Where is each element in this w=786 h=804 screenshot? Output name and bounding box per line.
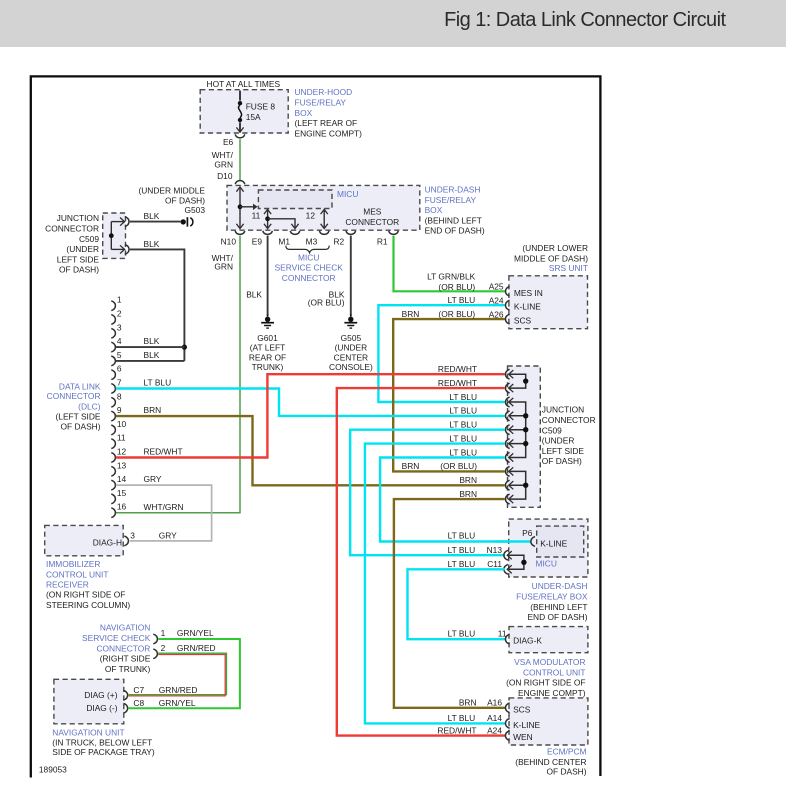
svg-text:OF DASH): OF DASH) — [546, 767, 586, 777]
svg-text:(OR BLU): (OR BLU) — [440, 461, 477, 471]
nav connector pin 1 — [153, 634, 157, 644]
svg-text:LT BLU: LT BLU — [449, 420, 477, 430]
wire RED/WHT C509 pin2 to ECM A24 WEN — [337, 388, 505, 735]
svg-text:FUSE/RELAY: FUSE/RELAY — [425, 195, 477, 205]
svg-text:A24: A24 — [489, 296, 504, 306]
internal arrow M3 to MICU — [323, 210, 325, 227]
svg-text:WHT/GRN: WHT/GRN — [144, 502, 184, 512]
svg-text:5: 5 — [117, 350, 122, 360]
svg-text:(OR BLU): (OR BLU) — [308, 297, 345, 307]
pin M3 — [319, 231, 329, 235]
DLC pin 14 — [111, 480, 115, 490]
svg-text:M1: M1 — [278, 236, 290, 246]
svg-text:6: 6 — [117, 364, 122, 374]
svg-text:DIAG (-): DIAG (-) — [86, 703, 117, 713]
svg-text:12: 12 — [117, 447, 127, 457]
svg-text:(UNDER: (UNDER — [66, 244, 99, 254]
svg-text:C509: C509 — [542, 425, 562, 435]
MICU inner box — [258, 190, 332, 209]
pin C8 — [124, 703, 128, 713]
svg-text:A16: A16 — [487, 698, 502, 708]
svg-text:N10: N10 — [221, 236, 237, 246]
wire LT BLU SRS A24 to C509 pin3 — [378, 305, 505, 402]
svg-text:BOX: BOX — [295, 108, 313, 118]
svg-text:11: 11 — [117, 433, 126, 443]
svg-text:BRN: BRN — [144, 405, 162, 415]
wire LT BLU DLC pin7 to C509 pin4 — [116, 389, 505, 416]
svg-text:Fig 1: Data Link Connector Cir: Fig 1: Data Link Connector Circuit — [444, 9, 726, 31]
wire LT BLU C509 pin5 to MICU N13 — [350, 430, 505, 556]
wire BLK C509 pin1 to G503 — [130, 221, 181, 223]
svg-text:OF DASH): OF DASH) — [542, 456, 582, 466]
svg-text:MES: MES — [363, 207, 382, 217]
C509 left internal bus — [110, 222, 112, 250]
C509 right pin 2 — [505, 383, 509, 393]
DLC pin 7 — [111, 384, 115, 394]
svg-text:(BEHIND LEFT: (BEHIND LEFT — [530, 602, 587, 612]
MICU internal bus N13-C11 — [507, 555, 524, 569]
svg-text:NAVIGATION: NAVIGATION — [100, 623, 150, 633]
svg-text:N13: N13 — [487, 545, 503, 555]
svg-text:REAR OF: REAR OF — [249, 352, 286, 362]
under-hood fuse/relay box — [200, 90, 288, 133]
svg-text:GRN/YEL: GRN/YEL — [177, 628, 214, 638]
svg-text:OF TRUNK): OF TRUNK) — [105, 664, 151, 674]
svg-text:K-LINE: K-LINE — [540, 538, 567, 548]
svg-text:P6: P6 — [522, 528, 533, 538]
junction connector C509 left box — [103, 213, 126, 258]
svg-text:C8: C8 — [133, 698, 144, 708]
svg-text:CONNECTOR: CONNECTOR — [282, 273, 336, 283]
svg-text:1: 1 — [117, 295, 122, 305]
wire GRN/YEL nav pin1 to C8 — [129, 639, 240, 708]
wire BLK DLC pin4 to junction — [116, 346, 185, 348]
svg-text:K-LINE: K-LINE — [513, 720, 540, 730]
VSA modulator DIAG-K box — [509, 627, 588, 653]
DIAG-H pin 3 — [124, 536, 128, 546]
wire GRN R1 to SRS A25 — [394, 236, 505, 292]
pin M1 — [290, 231, 300, 235]
svg-text:JUNCTION: JUNCTION — [57, 213, 99, 223]
internal arrow E9 to MICU with branch to M1 — [267, 210, 269, 227]
C509 right pin 7 — [505, 453, 509, 463]
svg-text:(BEHIND CENTER: (BEHIND CENTER — [515, 757, 586, 767]
svg-text:TRUNK): TRUNK) — [252, 362, 284, 372]
wire WHT/GRN fuse E6 to D10 — [239, 139, 241, 180]
C509 right pin 9 — [505, 480, 509, 490]
svg-text:189053: 189053 — [39, 765, 67, 775]
svg-text:OF DASH): OF DASH) — [59, 265, 99, 275]
svg-text:RED/WHT: RED/WHT — [438, 364, 477, 374]
svg-text:NAVIGATION UNIT: NAVIGATION UNIT — [52, 727, 124, 737]
svg-text:BLK: BLK — [144, 239, 160, 249]
svg-text:UNDER-DASH: UNDER-DASH — [532, 581, 588, 591]
fuse FUSE 8 15A — [239, 91, 241, 101]
svg-text:GRY: GRY — [144, 474, 162, 484]
svg-text:CENTER: CENTER — [334, 352, 368, 362]
svg-text:CONNECTOR: CONNECTOR — [45, 224, 99, 234]
wire WHT/GRN N10 down to DLC pin16 — [116, 236, 240, 513]
wire BRN DLC pin9 to C509 pin9 — [116, 416, 505, 485]
SRS unit box — [509, 276, 588, 329]
svg-text:GRN: GRN — [214, 159, 233, 169]
svg-text:CONNECTOR: CONNECTOR — [542, 415, 596, 425]
svg-text:R1: R1 — [377, 236, 388, 246]
svg-text:(LEFT SIDE: (LEFT SIDE — [56, 412, 101, 422]
K-LINE inner box — [537, 526, 584, 557]
svg-text:BOX: BOX — [425, 205, 443, 215]
svg-text:(OR BLU): (OR BLU) — [438, 282, 475, 292]
svg-text:G601: G601 — [257, 333, 278, 343]
svg-text:OF DASH): OF DASH) — [60, 422, 100, 432]
svg-text:LT BLU: LT BLU — [449, 406, 477, 416]
svg-text:STEERING COLUMN): STEERING COLUMN) — [46, 600, 130, 610]
svg-text:4: 4 — [117, 336, 122, 346]
wire BLK DLC pin5 to junction — [116, 360, 185, 362]
nav connector pin 2 — [153, 649, 157, 659]
wire BLK C509 pin2 to DLC pins 4,5 — [130, 249, 185, 361]
wire GRN/RED nav pin2 to C7 — [129, 653, 227, 694]
svg-text:CONTROL UNIT: CONTROL UNIT — [523, 667, 586, 677]
svg-text:(BEHIND LEFT: (BEHIND LEFT — [425, 215, 482, 225]
svg-text:BRN: BRN — [402, 309, 420, 319]
svg-text:ECM/PCM: ECM/PCM — [547, 747, 587, 757]
svg-text:SERVICE CHECK: SERVICE CHECK — [275, 263, 344, 273]
svg-text:DIAG-H: DIAG-H — [93, 538, 122, 548]
svg-text:LT BLU: LT BLU — [449, 392, 477, 402]
svg-text:7: 7 — [117, 378, 122, 388]
C509 left pin 1 — [111, 221, 124, 223]
DLC pin 9 — [111, 411, 115, 421]
svg-text:LT BLU: LT BLU — [448, 545, 476, 555]
C509 right pin 5 — [505, 425, 509, 435]
svg-text:MES IN: MES IN — [514, 288, 543, 298]
svg-text:LEFT SIDE: LEFT SIDE — [542, 446, 585, 456]
pin R1 — [389, 231, 399, 235]
svg-text:BRN: BRN — [459, 489, 477, 499]
svg-text:MICU: MICU — [298, 252, 319, 262]
svg-text:RED/WHT: RED/WHT — [144, 447, 183, 457]
svg-text:FUSE 8: FUSE 8 — [246, 101, 276, 111]
svg-text:A25: A25 — [489, 281, 504, 291]
svg-text:IMMOBILIZER: IMMOBILIZER — [46, 559, 100, 569]
DLC pin 4 — [111, 342, 115, 352]
ground G503 — [181, 219, 186, 224]
svg-text:9: 9 — [117, 405, 122, 415]
svg-text:BLK: BLK — [246, 289, 262, 299]
svg-text:LT BLU: LT BLU — [448, 628, 476, 638]
svg-text:8: 8 — [117, 391, 122, 401]
pin C7 — [124, 690, 128, 700]
svg-text:16: 16 — [117, 502, 127, 512]
svg-text:LT GRN/BLK: LT GRN/BLK — [427, 272, 476, 282]
pin E6 connector arc — [235, 134, 245, 138]
svg-text:MICU: MICU — [536, 559, 557, 569]
svg-text:13: 13 — [117, 460, 127, 470]
DLC pin 11 — [111, 439, 115, 449]
svg-text:BLK: BLK — [144, 350, 160, 360]
svg-text:MICU: MICU — [337, 189, 358, 199]
svg-text:BLK: BLK — [144, 336, 160, 346]
svg-text:E9: E9 — [252, 236, 263, 246]
DLC pin 6 — [111, 370, 115, 380]
C509 left pin 2 — [111, 248, 124, 250]
svg-text:RED/WHT: RED/WHT — [438, 378, 477, 388]
svg-text:15A: 15A — [246, 112, 261, 122]
DLC pin 8 — [111, 397, 115, 407]
svg-text:A14: A14 — [487, 713, 502, 723]
svg-text:(ON RIGHT SIDE OF: (ON RIGHT SIDE OF — [46, 590, 125, 600]
svg-text:SERVICE CHECK: SERVICE CHECK — [82, 633, 151, 643]
wire LT BLU MICU C11 to VSA DIAG-K pin 11 — [408, 569, 507, 639]
wire BLK R2 to ground G505 — [350, 236, 352, 315]
svg-text:G505: G505 — [341, 333, 362, 343]
svg-text:10: 10 — [117, 419, 127, 429]
C509 right bus pins 1-2 — [509, 374, 526, 388]
svg-text:LEFT SIDE: LEFT SIDE — [57, 254, 100, 264]
svg-text:FUSE/RELAY: FUSE/RELAY — [295, 98, 347, 108]
svg-text:G503: G503 — [185, 205, 206, 215]
svg-text:ENGINE COMPT): ENGINE COMPT) — [295, 128, 363, 138]
svg-text:CONNECTOR: CONNECTOR — [47, 391, 101, 401]
svg-text:SCS: SCS — [514, 316, 532, 326]
svg-text:VSA MODULATOR: VSA MODULATOR — [514, 657, 585, 667]
svg-text:LT BLU: LT BLU — [448, 530, 476, 540]
svg-text:(UNDER: (UNDER — [335, 343, 368, 353]
svg-text:11: 11 — [252, 211, 261, 221]
svg-text:A26: A26 — [489, 309, 504, 319]
ECM/PCM box — [509, 698, 588, 745]
C509 right pin 8 — [505, 467, 509, 477]
svg-text:M3: M3 — [306, 236, 318, 246]
under-dash fuse/relay box MICU — [509, 519, 588, 577]
svg-text:SRS UNIT: SRS UNIT — [549, 263, 588, 273]
svg-text:GRN/RED: GRN/RED — [159, 685, 198, 695]
pin R2 — [346, 231, 356, 235]
C509 right pin 3 — [505, 397, 509, 407]
under-dash fuse/relay box MES connector — [227, 185, 420, 230]
svg-text:GRY: GRY — [159, 531, 177, 541]
svg-text:C11: C11 — [487, 559, 502, 569]
ground G505 — [350, 315, 352, 317]
svg-text:FUSE/RELAY BOX: FUSE/RELAY BOX — [516, 592, 588, 602]
svg-text:(AT LEFT: (AT LEFT — [250, 343, 286, 353]
svg-text:R2: R2 — [333, 236, 344, 246]
svg-text:UNDER-HOOD: UNDER-HOOD — [295, 87, 353, 97]
svg-text:LT BLU: LT BLU — [448, 295, 476, 305]
wire LT BLU C509 pin6 to ECM A14 K-LINE — [365, 444, 505, 724]
svg-text:(UNDER MIDDLE: (UNDER MIDDLE — [138, 185, 205, 195]
svg-text:SIDE OF PACKAGE TRAY): SIDE OF PACKAGE TRAY) — [52, 747, 155, 757]
DLC pin 1 — [111, 301, 115, 311]
pin N10 — [235, 231, 245, 235]
svg-text:D10: D10 — [217, 171, 233, 181]
svg-text:14: 14 — [117, 474, 127, 484]
DLC pin 15 — [111, 494, 115, 504]
svg-text:ENGINE COMPT): ENGINE COMPT) — [518, 688, 586, 698]
svg-text:BLK: BLK — [144, 211, 160, 221]
svg-text:(LEFT REAR OF: (LEFT REAR OF — [295, 118, 358, 128]
svg-text:3: 3 — [130, 531, 135, 541]
svg-text:BRN: BRN — [402, 461, 420, 471]
wire RED/WHT DLC pin12 to C509 pin1 — [116, 374, 505, 457]
svg-text:1: 1 — [161, 628, 166, 638]
svg-text:(OR BLU): (OR BLU) — [438, 309, 475, 319]
svg-text:RED/WHT: RED/WHT — [437, 725, 476, 735]
svg-text:(IN TRUCK, BELOW LEFT: (IN TRUCK, BELOW LEFT — [52, 738, 152, 748]
svg-text:CONTROL UNIT: CONTROL UNIT — [46, 569, 109, 579]
svg-text:JUNCTION: JUNCTION — [542, 405, 584, 415]
svg-text:(ON RIGHT SIDE OF: (ON RIGHT SIDE OF — [506, 678, 585, 688]
svg-text:GRN/YEL: GRN/YEL — [159, 698, 196, 708]
svg-text:E6: E6 — [223, 137, 234, 147]
C509 right pin 1 — [505, 369, 509, 379]
navigation unit box — [54, 679, 124, 724]
DLC pin 12 — [111, 453, 115, 463]
svg-text:GRN/RED: GRN/RED — [177, 643, 216, 653]
svg-text:SCS: SCS — [513, 704, 531, 714]
C509 right pin 6 — [505, 439, 509, 449]
svg-text:WHT/: WHT/ — [212, 150, 234, 160]
svg-text:END OF DASH): END OF DASH) — [425, 226, 485, 236]
svg-text:(DLC): (DLC) — [78, 401, 101, 411]
svg-text:2: 2 — [117, 309, 122, 319]
svg-text:GRN: GRN — [214, 261, 233, 271]
pin E9 — [263, 231, 273, 235]
wire GRY DLC pin14 to DIAG-H pin3 — [116, 485, 212, 541]
wire BRN C509 pin10 to ECM A16 SCS — [394, 499, 505, 708]
wire LT BLU P6 segment inside MICU box — [495, 540, 530, 542]
junction dot BLK — [182, 345, 187, 350]
svg-text:LT BLU: LT BLU — [449, 433, 477, 443]
immobilizer DIAG-H box — [45, 525, 124, 555]
svg-text:C7: C7 — [133, 685, 144, 695]
diagram frame border — [31, 76, 601, 777]
svg-text:DATA LINK: DATA LINK — [59, 382, 101, 392]
C509 right pin 10 — [505, 494, 509, 504]
wire BRN SRS A26 to C509 pin8 — [393, 319, 505, 471]
svg-text:3: 3 — [117, 322, 122, 332]
svg-text:CONSOLE): CONSOLE) — [329, 362, 373, 372]
svg-text:CONNECTOR: CONNECTOR — [345, 217, 399, 227]
svg-text:WEN: WEN — [513, 732, 533, 742]
svg-text:END OF DASH): END OF DASH) — [527, 612, 587, 622]
svg-text:MIDDLE OF DASH): MIDDLE OF DASH) — [514, 253, 588, 263]
svg-text:C509: C509 — [79, 234, 99, 244]
svg-text:12: 12 — [306, 211, 316, 221]
svg-text:BRN: BRN — [459, 475, 477, 485]
brace MICU service check connector — [286, 246, 329, 253]
DLC pin 5 — [111, 356, 115, 366]
svg-text:DIAG-K: DIAG-K — [513, 635, 542, 645]
wire BLK E9 to ground G601 — [267, 236, 269, 315]
DLC pin 2 — [111, 315, 115, 325]
C509 right bus pins 3-7 — [509, 402, 526, 458]
svg-text:(RIGHT SIDE: (RIGHT SIDE — [100, 654, 151, 664]
svg-text:BRN: BRN — [459, 698, 477, 708]
svg-text:K-LINE: K-LINE — [514, 302, 541, 312]
svg-text:(UNDER LOWER: (UNDER LOWER — [522, 243, 588, 253]
svg-text:LT BLU: LT BLU — [144, 378, 172, 388]
svg-text:DIAG (+): DIAG (+) — [84, 690, 117, 700]
svg-text:(UNDER: (UNDER — [542, 436, 575, 446]
svg-text:RECEIVER: RECEIVER — [46, 580, 89, 590]
wire LT BLU C509 pin7 to MICU K-LINE P6 — [380, 458, 530, 542]
svg-text:LT BLU: LT BLU — [448, 559, 476, 569]
C509 right bus pins 8-10 — [509, 471, 526, 499]
junction connector C509 right box — [508, 366, 541, 507]
svg-text:A24: A24 — [487, 725, 502, 735]
title bar — [0, 0, 786, 47]
DLC pin 16 — [111, 508, 115, 518]
svg-text:LT BLU: LT BLU — [449, 447, 477, 457]
svg-text:LT BLU: LT BLU — [448, 713, 476, 723]
DLC pin 3 — [111, 328, 115, 338]
DLC pin 13 — [111, 466, 115, 476]
svg-text:15: 15 — [117, 488, 127, 498]
svg-text:HOT AT ALL TIMES: HOT AT ALL TIMES — [207, 79, 281, 89]
DLC pin 10 — [111, 425, 115, 435]
ground G601 — [267, 315, 269, 317]
internal junction dot and arrow to MICU — [238, 204, 243, 209]
svg-text:UNDER-DASH: UNDER-DASH — [425, 185, 481, 195]
svg-text:2: 2 — [161, 643, 166, 653]
internal arrow N10 to D10 — [239, 188, 241, 227]
C509 right pin 4 — [505, 411, 509, 421]
svg-text:CONNECTOR: CONNECTOR — [96, 643, 150, 653]
